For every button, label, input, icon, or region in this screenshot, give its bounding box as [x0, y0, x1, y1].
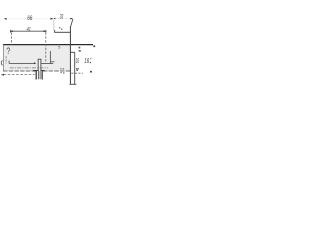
svg-text:41: 41: [27, 27, 31, 33]
svg-text:5: 5: [58, 46, 60, 50]
svg-text:66: 66: [27, 15, 32, 22]
svg-text:16: 16: [76, 58, 79, 65]
svg-text:16: 16: [84, 58, 89, 65]
svg-text:33: 33: [60, 14, 64, 21]
svg-text:?: ?: [6, 46, 10, 56]
